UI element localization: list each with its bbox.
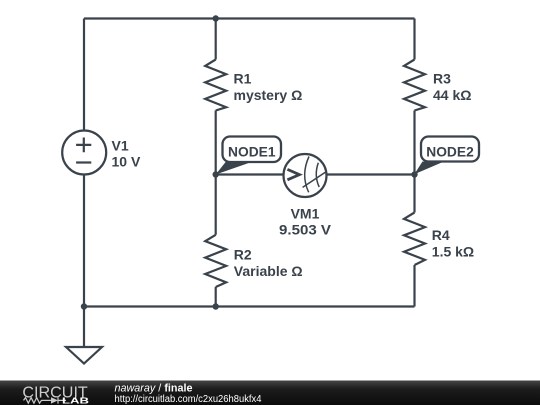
junction dot bottom middle [213,303,219,309]
resistor R2 [205,235,226,287]
svg-text:nawaray / finale: nawaray / finale [115,383,193,395]
svg-text:44 kΩ: 44 kΩ [433,87,471,103]
label VM1 value [279,206,332,238]
wire right between node2 and R4 [413,175,415,213]
label R1 [234,71,303,104]
wire middle between R1 and node1 [215,111,217,175]
resistor R1 [205,60,226,111]
resistor R4 [404,213,425,266]
wire voltmeter to node2 [327,173,415,175]
wire right between R3 and node2 [413,111,415,175]
svg-text:10 V: 10 V [112,154,141,170]
node NODE2 callout [414,137,479,175]
svg-text:R3: R3 [433,71,451,87]
wire left vertical upper [83,19,85,131]
wire right vertical upper lead [413,19,415,60]
svg-text:R2: R2 [234,247,252,263]
label R2 [234,247,303,280]
svg-text:mystery Ω: mystery Ω [234,87,303,103]
label R4 [432,227,474,260]
wire bottom horizontal [84,305,415,307]
label V1 value [112,138,141,170]
wire middle between node1 and R2 [215,175,217,235]
wire left vertical lower [83,175,85,348]
label R3 [433,71,471,104]
svg-text:http://circuitlab.com/c2xu26h8: http://circuitlab.com/c2xu26h8ukfx4 [115,394,262,405]
svg-text:V1: V1 [112,138,129,154]
wire right between R4 and bottom [413,265,415,307]
voltmeter VM1 [284,154,327,197]
ground [66,347,102,364]
wire top horizontal [84,17,415,19]
svg-text:R4: R4 [432,227,450,243]
junction dot bottom left [81,303,87,309]
svg-text:LAB: LAB [62,396,89,405]
CircuitLab logo squiggle and diode [24,397,67,403]
svg-text:NODE1: NODE1 [228,145,276,160]
svg-text:9.503 V: 9.503 V [279,222,332,238]
junction dot node1 [213,171,219,177]
svg-text:VM1: VM1 [291,206,320,222]
svg-text:1.5 kΩ: 1.5 kΩ [432,244,474,260]
node NODE1 callout [216,137,281,175]
junction dot top [213,15,219,21]
svg-text:R1: R1 [234,71,252,87]
voltage source V1 [62,131,106,175]
svg-text:NODE2: NODE2 [426,145,474,160]
resistor R3 [404,60,425,111]
wire node1 to voltmeter [216,173,284,175]
junction dot node2 [411,171,417,177]
wire middle between R2 and bottom [215,287,217,307]
svg-text:Variable Ω: Variable Ω [234,263,303,279]
wire middle branch upper lead [215,19,217,60]
